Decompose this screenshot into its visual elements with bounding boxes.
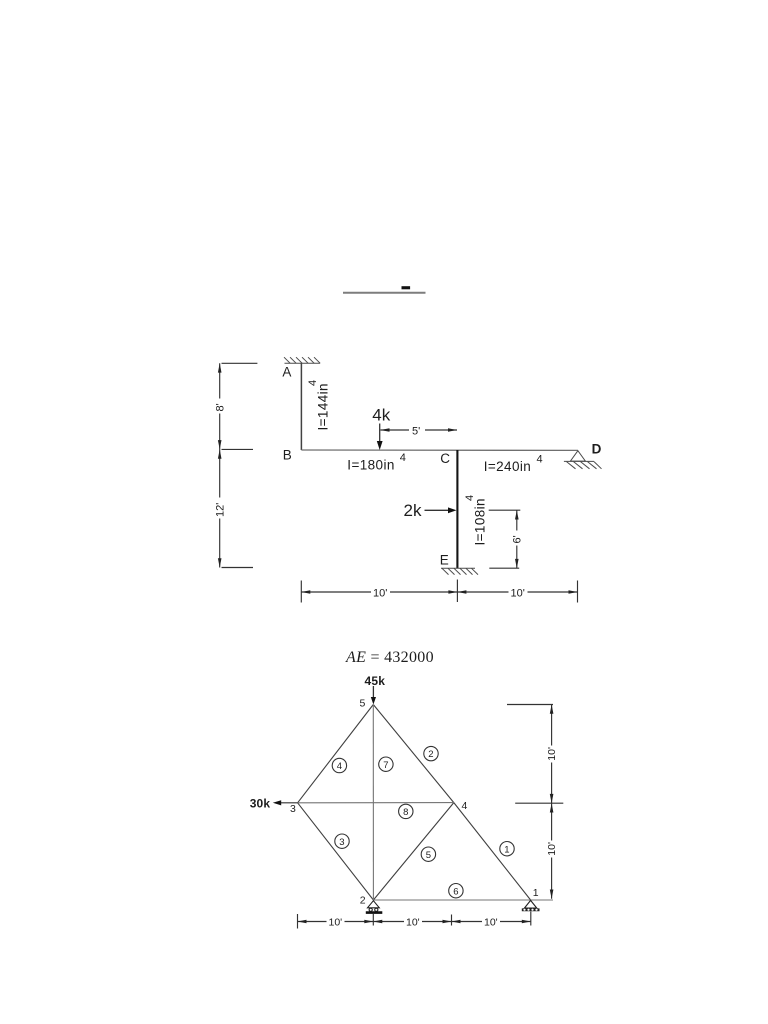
truss member 3 (3-2) <box>298 803 374 900</box>
svg-text:6': 6' <box>511 535 523 543</box>
right dimension line (10' and 10') <box>507 705 563 899</box>
member tag circle 3 <box>335 834 349 848</box>
svg-text:C: C <box>440 451 450 466</box>
load 30k arrow <box>280 802 298 804</box>
svg-text:8: 8 <box>403 807 408 818</box>
svg-text:3: 3 <box>339 837 344 848</box>
member tag circle 4 <box>332 758 346 772</box>
svg-text:30k: 30k <box>250 796 271 810</box>
svg-text:10': 10' <box>546 747 558 761</box>
svg-text:4: 4 <box>462 800 468 812</box>
bottom dimension line (10' and 10') <box>301 580 577 603</box>
svg-text:8': 8' <box>215 403 227 411</box>
truss member 6 (2-1) <box>373 899 553 901</box>
svg-text:5: 5 <box>426 850 431 861</box>
svg-text:6: 6 <box>453 886 458 897</box>
svg-text:2k: 2k <box>404 501 422 520</box>
member BD (beam) <box>301 449 578 451</box>
svg-text:10': 10' <box>406 916 420 928</box>
dimension 12' label <box>212 498 227 519</box>
svg-text:4: 4 <box>337 761 342 772</box>
svg-text:4: 4 <box>537 454 543 466</box>
svg-text:10': 10' <box>511 587 525 599</box>
load 2k arrow <box>425 509 449 511</box>
svg-text:10': 10' <box>484 916 498 928</box>
svg-text:10': 10' <box>546 842 558 856</box>
member CE (column) <box>456 450 458 568</box>
svg-text:I=144in: I=144in <box>316 383 331 430</box>
svg-text:5: 5 <box>360 698 366 710</box>
member tag circle 7 <box>379 757 393 771</box>
truss bottom dimension (10' x3) <box>298 912 531 929</box>
svg-text:45k: 45k <box>365 674 386 688</box>
svg-text:I=240in: I=240in <box>484 459 531 474</box>
svg-text:4: 4 <box>307 380 319 386</box>
svg-text:1: 1 <box>504 844 509 855</box>
svg-text:2: 2 <box>428 749 433 760</box>
left dimension line (8' and 12') <box>220 363 258 567</box>
member tag circle 6 <box>449 884 463 898</box>
fixed support E <box>441 568 478 574</box>
svg-text:1: 1 <box>533 887 539 899</box>
svg-text:I=108in: I=108in <box>473 498 488 545</box>
svg-text:B: B <box>283 447 292 462</box>
member tag circle 8 <box>399 804 413 818</box>
truss member 5 (2-4) <box>373 803 453 900</box>
svg-text:5': 5' <box>412 425 420 437</box>
truss member 4 (3-5) <box>298 705 374 803</box>
svg-text:4: 4 <box>464 495 476 501</box>
roller support node 2 <box>368 901 380 912</box>
truss member 8 (3-4) <box>298 802 454 804</box>
title dash <box>402 286 411 289</box>
svg-text:A: A <box>282 364 291 379</box>
dimension 8' label <box>213 399 227 414</box>
svg-text:3: 3 <box>290 803 296 815</box>
dimension 6' <box>489 510 521 568</box>
svg-text:12': 12' <box>214 503 226 517</box>
pin support D <box>564 451 602 469</box>
fixed support A <box>284 357 320 363</box>
load 45k arrow <box>372 686 374 698</box>
truss member 7 (5-2) <box>372 705 374 901</box>
svg-text:D: D <box>592 442 602 457</box>
svg-text:AE = 432000: AE = 432000 <box>345 649 434 666</box>
svg-text:10': 10' <box>329 916 343 928</box>
member tag circle 2 <box>424 746 438 760</box>
svg-text:7: 7 <box>383 760 388 771</box>
dimension 5' <box>381 429 458 431</box>
member tag circle 5 <box>421 847 435 861</box>
member tag circle 1 <box>500 842 514 856</box>
member AB (column) <box>300 363 302 450</box>
roller support node 1 <box>525 900 537 908</box>
svg-text:4: 4 <box>400 452 406 464</box>
truss member 1 (4-1) <box>454 803 531 900</box>
value label I=108in4 (rotated) <box>464 495 488 546</box>
svg-text:10': 10' <box>373 587 387 599</box>
svg-text:2: 2 <box>360 895 366 907</box>
svg-text:4k: 4k <box>372 406 390 425</box>
truss member 2 (5-4) <box>373 705 454 803</box>
value label I=144in4 (rotated) <box>307 380 331 431</box>
load 4k arrow <box>379 424 381 443</box>
title underline <box>343 292 426 294</box>
svg-text:E: E <box>440 552 449 567</box>
svg-text:I=180in: I=180in <box>347 457 394 472</box>
